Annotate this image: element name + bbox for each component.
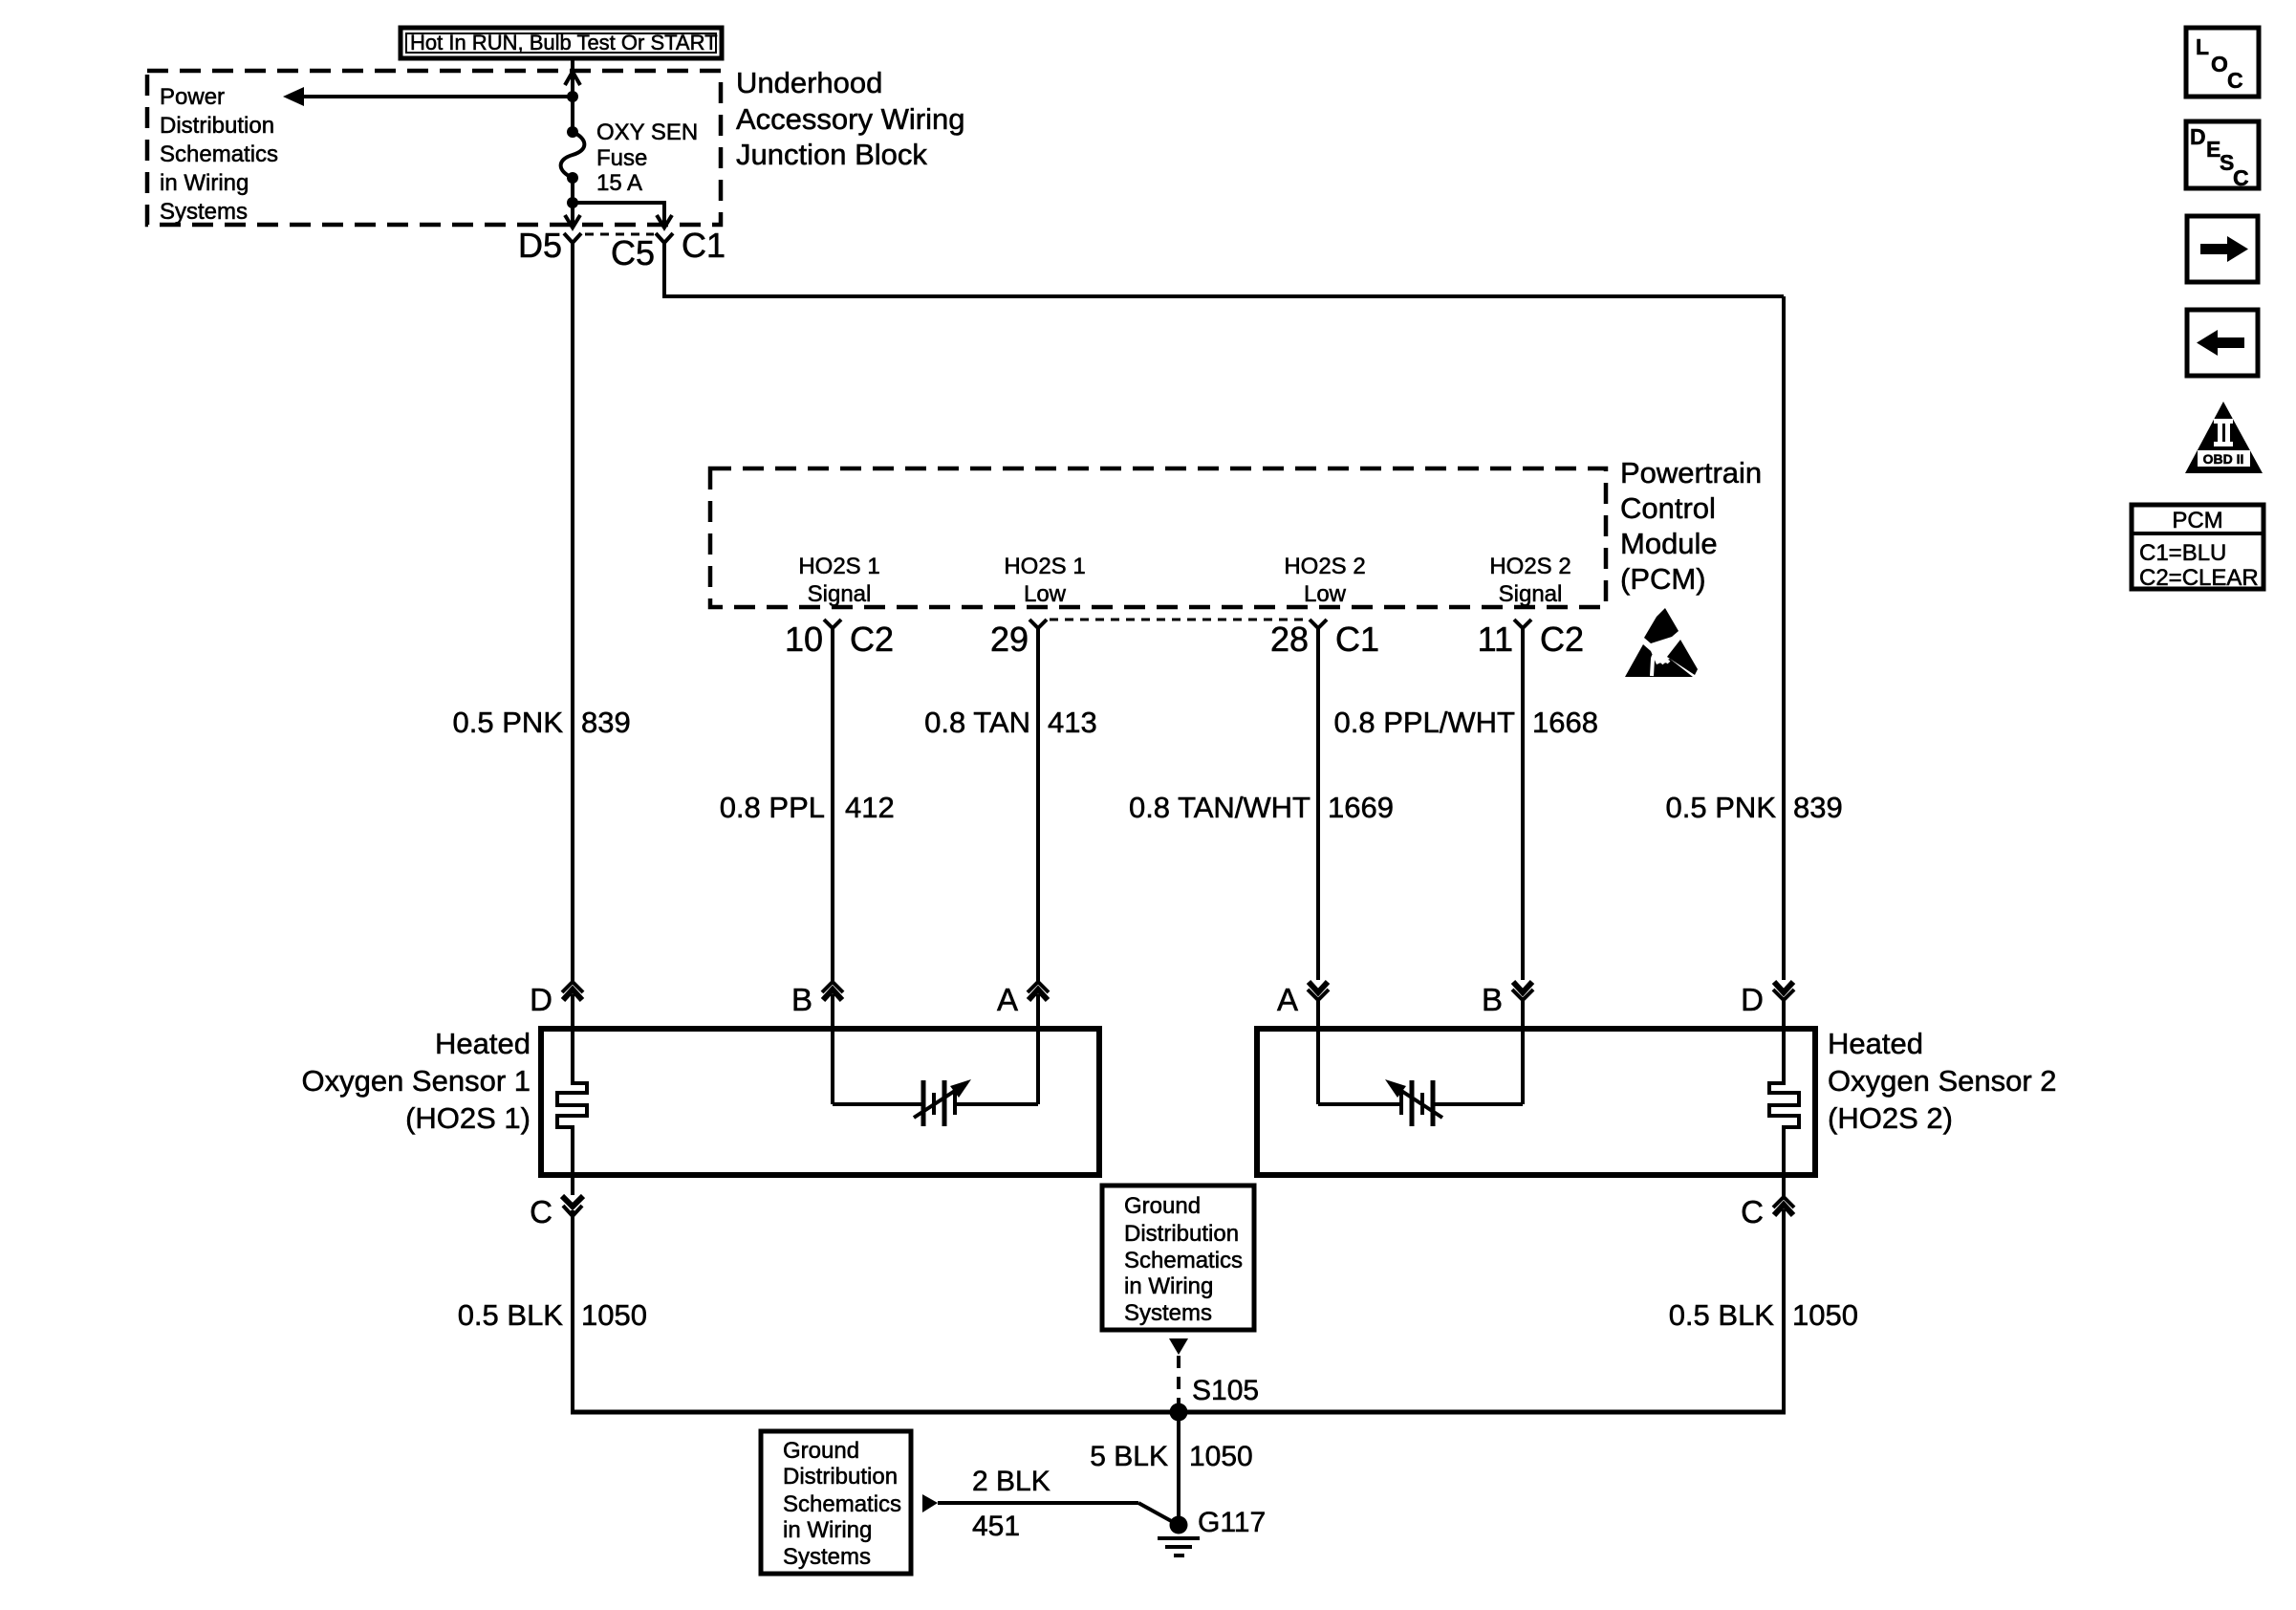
- wire: 0.8 TAN 413 (pin 29 to HO2S1): [1036, 628, 1040, 981]
- svg-text:0.8 TAN: 0.8 TAN: [924, 706, 1030, 739]
- label: 0.5 BLK 1050 (right): [1669, 1298, 1858, 1332]
- wire: fuse output to splice: [571, 178, 574, 203]
- PCM dashed box: [710, 468, 1606, 607]
- ground G117: [1158, 1516, 1200, 1556]
- pin label 11 C2: [1478, 620, 1584, 659]
- terminal B of HO2S1 (double chevron up): [822, 982, 843, 1029]
- icon: forward arrow box: [2187, 216, 2258, 282]
- svg-text:D: D: [2190, 124, 2206, 149]
- Heated Oxygen Sensor 1 box: [541, 1029, 1099, 1175]
- svg-text:10: 10: [785, 620, 823, 659]
- wire: 0.8 PPL 412 (pin 10 to HO2S1): [831, 628, 834, 981]
- svg-text:1050: 1050: [1189, 1441, 1253, 1472]
- svg-text:B: B: [1482, 982, 1503, 1017]
- dashed stub to S105: [1177, 1356, 1180, 1405]
- up arrowhead at junction block top: [565, 72, 580, 85]
- svg-text:0.8 TAN/WHT: 0.8 TAN/WHT: [1129, 791, 1310, 824]
- svg-text:Schematics: Schematics: [160, 141, 278, 167]
- svg-text:0.5 PNK: 0.5 PNK: [453, 706, 564, 739]
- svg-text:Accessory Wiring: Accessory Wiring: [736, 102, 964, 136]
- PCM pin 11 connector (Y): [1514, 620, 1531, 628]
- label: 0.5 PNK 839 (left): [453, 706, 631, 739]
- svg-text:HO2S 2: HO2S 2: [1489, 554, 1570, 579]
- svg-text:1668: 1668: [1532, 706, 1598, 739]
- Heated Oxygen Sensor 2 box: [1257, 1029, 1815, 1175]
- svg-text:PCM: PCM: [2172, 508, 2222, 533]
- label: Heated Oxygen Sensor 2 (HO2S 2): [1828, 1027, 2057, 1135]
- connector terminal C1 (Y): [656, 233, 673, 243]
- svg-text:Distribution: Distribution: [783, 1464, 898, 1490]
- label: 0.8 PPL 412: [720, 791, 895, 824]
- down arrowhead at D5: [565, 215, 580, 228]
- terminal C of HO2S2 (double chevron up): [1773, 1175, 1794, 1412]
- svg-text:Ground: Ground: [783, 1438, 859, 1464]
- sensing element of HO2S2 (variable cell with arrow): [1318, 1029, 1523, 1126]
- fuse OXY SEN 15 A: [561, 126, 585, 184]
- svg-text:Module: Module: [1620, 527, 1718, 560]
- PCM pin 10 connector (Y): [824, 620, 841, 628]
- svg-text:C1: C1: [682, 226, 726, 265]
- svg-text:Power: Power: [160, 84, 225, 110]
- PCM connector face dashed line (between pins 29 and 28): [1050, 619, 1308, 621]
- svg-text:28: 28: [1270, 620, 1309, 659]
- svg-text:839: 839: [1793, 791, 1843, 824]
- note: Power Distribution Schematics in Wiring Systems (top left): [160, 84, 278, 225]
- svg-text:Low: Low: [1024, 581, 1067, 607]
- ground bus wire (bottom run): [571, 1410, 1786, 1415]
- svg-text:413: 413: [1048, 706, 1097, 739]
- svg-text:1050: 1050: [1792, 1298, 1858, 1332]
- label: Heated Oxygen Sensor 1 (HO2S 1): [301, 1027, 531, 1135]
- svg-text:HO2S 1: HO2S 1: [1004, 554, 1085, 579]
- svg-text:Distribution: Distribution: [1124, 1221, 1239, 1247]
- svg-text:C5: C5: [611, 233, 655, 272]
- svg-text:B: B: [791, 982, 812, 1017]
- PCM pin 29 connector (Y): [1029, 620, 1047, 628]
- svg-text:Signal: Signal: [808, 581, 872, 607]
- svg-text:C2=CLEAR: C2=CLEAR: [2139, 565, 2259, 591]
- svg-text:L: L: [2196, 34, 2209, 59]
- wire: branch to Power Distribution Schematics (left arrow): [298, 95, 573, 98]
- svg-text:2 BLK: 2 BLK: [972, 1466, 1051, 1497]
- svg-text:C: C: [530, 1194, 552, 1229]
- wire: feed from power box into junction block: [571, 60, 574, 97]
- svg-text:Signal: Signal: [1499, 581, 1563, 607]
- svg-text:Ground: Ground: [1124, 1193, 1201, 1219]
- svg-text:0.5 PNK: 0.5 PNK: [1666, 791, 1777, 824]
- label: 2 BLK 451: [972, 1466, 1051, 1542]
- svg-text:1669: 1669: [1328, 791, 1394, 824]
- label: OXY SEN Fuse 15 A: [596, 120, 698, 196]
- svg-text:in Wiring: in Wiring: [160, 170, 249, 196]
- svg-text:Underhood: Underhood: [736, 66, 882, 99]
- power feed box: Hot In RUN, Bulb Test Or START: [401, 28, 722, 58]
- svg-text:412: 412: [845, 791, 895, 824]
- note box: Ground Distribution Schematics in Wiring Systems (bottom left): [761, 1431, 911, 1574]
- svg-text:C2: C2: [850, 620, 894, 659]
- svg-text:0.8 PPL/WHT: 0.8 PPL/WHT: [1334, 706, 1516, 739]
- legend box: PCM connectors: [2132, 505, 2264, 591]
- note box: Ground Distribution Schematics in Wiring Systems (middle): [1102, 1186, 1254, 1330]
- solid arrowhead pointing left: [283, 87, 304, 106]
- PCM pin 28 connector (Y): [1310, 620, 1327, 628]
- svg-text:Oxygen Sensor 2: Oxygen Sensor 2: [1828, 1064, 2057, 1098]
- svg-text:D: D: [530, 982, 552, 1017]
- svg-text:Distribution: Distribution: [160, 113, 274, 139]
- label: 0.5 BLK 1050 (left): [458, 1298, 647, 1332]
- svg-text:D: D: [1741, 982, 1764, 1017]
- terminal C of HO2S1 (double chevron down): [562, 1175, 583, 1412]
- svg-text:1050: 1050: [581, 1298, 647, 1332]
- heater element of HO2S2: [1769, 1029, 1799, 1175]
- pin function label: HO2S 2 Signal: [1489, 554, 1570, 607]
- label: Powertrain Control Module (PCM): [1620, 456, 1762, 596]
- wire: splice across to C1 drop: [573, 203, 664, 224]
- connector terminal D5 (Y): [564, 233, 581, 243]
- icon: LOC box: [2186, 28, 2259, 97]
- pin function label: HO2S 1 Low: [1004, 554, 1085, 607]
- wire: 0.8 TAN/WHT 1669 (pin 28 to HO2S2): [1316, 628, 1320, 980]
- pin function label: HO2S 1 Signal: [798, 554, 879, 607]
- reference arrow below middle ground box: [1169, 1338, 1188, 1355]
- terminal A of HO2S1 (double chevron up): [1028, 982, 1049, 1029]
- svg-text:Low: Low: [1304, 581, 1347, 607]
- wire: 0.5 PNK 839 right (C1 across and down to HO2S2 D): [664, 243, 1784, 296]
- heater element of HO2S1: [557, 1029, 587, 1175]
- svg-text:Systems: Systems: [1124, 1300, 1212, 1326]
- svg-text:(HO2S 1): (HO2S 1): [405, 1101, 531, 1135]
- junction dot below fuse: [567, 197, 578, 208]
- svg-text:O: O: [2211, 52, 2228, 76]
- svg-text:HO2S 1: HO2S 1: [798, 554, 879, 579]
- pin label 28 C1: [1270, 620, 1379, 659]
- svg-text:Schematics: Schematics: [1124, 1248, 1243, 1273]
- splice S105: [1170, 1403, 1188, 1422]
- junction dot at branch: [567, 91, 578, 102]
- svg-text:(PCM): (PCM): [1620, 562, 1706, 596]
- label: 5 BLK 1050: [1090, 1441, 1252, 1472]
- svg-text:0.5 BLK: 0.5 BLK: [1669, 1298, 1775, 1332]
- label: 0.5 PNK 839 (right): [1666, 791, 1843, 824]
- svg-text:29: 29: [990, 620, 1029, 659]
- svg-text:Junction Block: Junction Block: [736, 138, 927, 171]
- wire: 0.8 PPL/WHT 1668 (pin 11 to HO2S2): [1521, 628, 1525, 980]
- ESD sensitivity symbol: [1625, 608, 1698, 677]
- svg-text:OBD II: OBD II: [2203, 451, 2244, 467]
- svg-text:Heated: Heated: [435, 1027, 531, 1060]
- svg-text:C: C: [1741, 1194, 1764, 1229]
- connector face dashed line C5: [585, 233, 654, 236]
- svg-text:Systems: Systems: [160, 199, 248, 225]
- svg-text:0.8 PPL: 0.8 PPL: [720, 791, 825, 824]
- wire: 5 BLK 1050 (S105 to G117): [1177, 1412, 1180, 1525]
- svg-text:D5: D5: [518, 226, 562, 265]
- svg-text:Powertrain: Powertrain: [1620, 456, 1762, 490]
- svg-text:C1: C1: [1335, 620, 1379, 659]
- sensing element of HO2S1 (variable cell with arrow): [833, 1029, 1038, 1126]
- svg-text:C1=BLU: C1=BLU: [2139, 540, 2226, 566]
- svg-text:Heated: Heated: [1828, 1027, 1923, 1060]
- svg-text:C: C: [2233, 165, 2249, 190]
- svg-text:S105: S105: [1192, 1375, 1259, 1406]
- svg-text:11: 11: [1478, 620, 1513, 659]
- wire: 0.5 PNK 839 left (D5 to HO2S1 D): [571, 243, 574, 981]
- svg-text:C: C: [2227, 68, 2243, 93]
- label: 0.8 TAN 413: [924, 706, 1097, 739]
- icon: OBD II warning triangle: [2185, 402, 2263, 473]
- svg-text:Oxygen Sensor 1: Oxygen Sensor 1: [301, 1064, 531, 1098]
- svg-text:in Wiring: in Wiring: [1124, 1273, 1213, 1299]
- icon: DESC box: [2186, 121, 2259, 190]
- icon: back arrow box: [2187, 310, 2258, 376]
- svg-text:(HO2S 2): (HO2S 2): [1828, 1101, 1953, 1135]
- label: 0.8 PPL/WHT 1668: [1334, 706, 1598, 739]
- terminal B of HO2S2 (double chevron down): [1512, 982, 1533, 1029]
- wire: 2 BLK 451 to G117: [922, 1494, 1175, 1523]
- svg-text:in Wiring: in Wiring: [783, 1517, 872, 1543]
- down arrowhead at C5/C1: [657, 215, 672, 228]
- svg-text:Control: Control: [1620, 491, 1716, 525]
- label: 0.8 TAN/WHT 1669: [1129, 791, 1394, 824]
- svg-text:Systems: Systems: [783, 1544, 871, 1570]
- terminal A of HO2S2 (double chevron down): [1308, 982, 1329, 1029]
- svg-text:C2: C2: [1540, 620, 1584, 659]
- pin label 10 C2: [785, 620, 894, 659]
- svg-text:15 A: 15 A: [596, 170, 642, 196]
- svg-text:839: 839: [581, 706, 631, 739]
- svg-text:0.5 BLK: 0.5 BLK: [458, 1298, 564, 1332]
- label: Underhood Accessory Wiring Junction Block: [736, 66, 964, 171]
- junction block dashed box (Underhood Accessory Wiring Junction Block): [147, 71, 721, 225]
- terminal D of HO2S1 (double chevron up): [562, 982, 583, 1029]
- svg-text:5 BLK: 5 BLK: [1090, 1441, 1168, 1472]
- svg-text:A: A: [997, 982, 1018, 1017]
- svg-text:451: 451: [972, 1511, 1020, 1542]
- terminal D of HO2S2 (double chevron down): [1773, 982, 1794, 1029]
- svg-text:Schematics: Schematics: [783, 1491, 901, 1517]
- svg-text:Hot In RUN, Bulb Test Or START: Hot In RUN, Bulb Test Or START: [410, 31, 718, 54]
- svg-text:A: A: [1277, 982, 1298, 1017]
- svg-text:HO2S 2: HO2S 2: [1284, 554, 1365, 579]
- wire: splice to D5 terminal: [571, 203, 574, 224]
- wire: branch dot to fuse: [571, 97, 574, 132]
- svg-text:Fuse: Fuse: [596, 145, 647, 171]
- pin function label: HO2S 2 Low: [1284, 554, 1365, 607]
- svg-text:OXY SEN: OXY SEN: [596, 120, 698, 145]
- svg-text:G117: G117: [1198, 1507, 1266, 1538]
